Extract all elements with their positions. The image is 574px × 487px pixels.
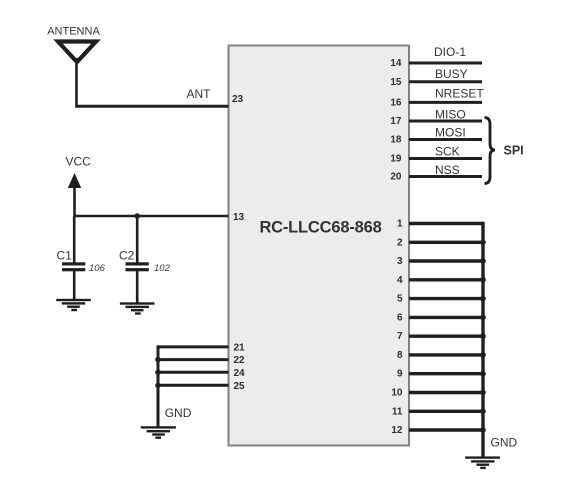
svg-text:23: 23 [232,94,244,105]
svg-text:4: 4 [397,275,403,286]
svg-text:15: 15 [390,77,402,88]
svg-text:C2: C2 [119,249,135,263]
svg-text:20: 20 [390,172,402,183]
svg-text:13: 13 [233,212,245,223]
svg-text:19: 19 [390,154,402,165]
svg-text:21: 21 [234,342,246,353]
svg-text:MOSI: MOSI [435,126,466,140]
svg-text:18: 18 [390,135,402,146]
svg-text:25: 25 [234,381,246,392]
svg-text:5: 5 [397,294,403,305]
svg-text:3: 3 [397,256,403,267]
svg-text:DIO-1: DIO-1 [434,45,466,59]
svg-text:NSS: NSS [435,163,460,177]
svg-text:10: 10 [391,388,403,399]
svg-text:C1: C1 [57,249,73,263]
svg-text:ANT: ANT [187,87,212,101]
svg-text:BUSY: BUSY [435,67,468,81]
svg-text:17: 17 [390,116,402,127]
svg-text:SCK: SCK [435,145,460,159]
svg-text:9: 9 [397,369,403,380]
svg-text:12: 12 [391,425,403,436]
svg-text:GND: GND [165,406,192,420]
svg-text:106: 106 [89,263,106,274]
svg-text:MISO: MISO [435,108,466,122]
svg-text:6: 6 [397,312,403,323]
svg-text:11: 11 [392,406,403,417]
svg-text:SPI: SPI [504,144,524,158]
svg-text:8: 8 [397,350,403,361]
svg-text:7: 7 [397,331,403,342]
svg-text:VCC: VCC [66,155,92,169]
svg-text:102: 102 [154,263,171,274]
svg-text:22: 22 [234,355,246,366]
svg-text:NRESET: NRESET [435,87,484,101]
svg-text:1: 1 [397,219,403,230]
svg-text:ANTENNA: ANTENNA [47,26,100,38]
svg-text:2: 2 [397,237,403,248]
svg-text:14: 14 [390,58,402,69]
svg-text:GND: GND [491,436,518,450]
svg-text:24: 24 [234,368,246,379]
svg-text:RC-LLCC68-868: RC-LLCC68-868 [259,219,381,237]
svg-text:16: 16 [390,97,402,108]
